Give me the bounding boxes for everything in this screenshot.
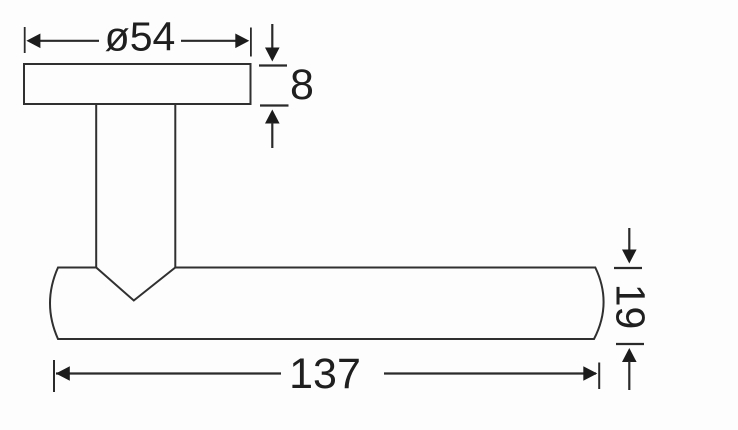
dimension 137: right arrowhead — [583, 366, 597, 381]
dimension 19: upper tick — [614, 267, 642, 269]
dimension 8: upper arrow tail — [271, 24, 273, 49]
dimension 19: lower tick — [616, 343, 644, 345]
dimension ø54: left extension line — [24, 27, 26, 53]
dimension 137: left arrowhead — [56, 366, 70, 381]
dimension 8: lower tick — [260, 104, 289, 106]
dimension 19: lower arrow tail — [628, 361, 630, 390]
handle neck right line — [174, 104, 176, 268]
dimension 137: line left segment — [56, 372, 281, 374]
dimension 8: upper tick — [259, 64, 287, 66]
dimension 137: line right segment — [384, 372, 596, 374]
lever handle outline with V notch — [50, 268, 604, 340]
dimension ø54: right extension line — [250, 28, 252, 57]
handle neck left line — [95, 104, 97, 268]
dimension 19: upper arrowhead (down) — [622, 250, 637, 264]
dimension ø54: right arrowhead — [235, 34, 249, 49]
dimension 19: lower arrowhead (up) — [622, 348, 637, 362]
dimension 8: lower arrowhead (up) — [265, 110, 280, 124]
svg-text:8: 8 — [290, 61, 314, 109]
svg-text:137: 137 — [289, 350, 361, 398]
svg-text:ø54: ø54 — [105, 14, 176, 60]
dimension ø54: line right segment — [181, 40, 238, 42]
dimension 19: upper arrow tail — [628, 228, 630, 251]
dimension ø54: left arrowhead — [26, 34, 40, 49]
dimension 8: lower arrow tail — [271, 123, 273, 149]
rose plate (side view rectangle) — [24, 64, 251, 104]
dimension ø54: line left segment — [38, 40, 99, 42]
dimension 137: right extension line — [598, 363, 600, 390]
svg-text:19: 19 — [608, 284, 654, 330]
dimension 137: left extension line — [53, 360, 55, 392]
dimension 8: upper arrowhead (down) — [265, 48, 280, 62]
